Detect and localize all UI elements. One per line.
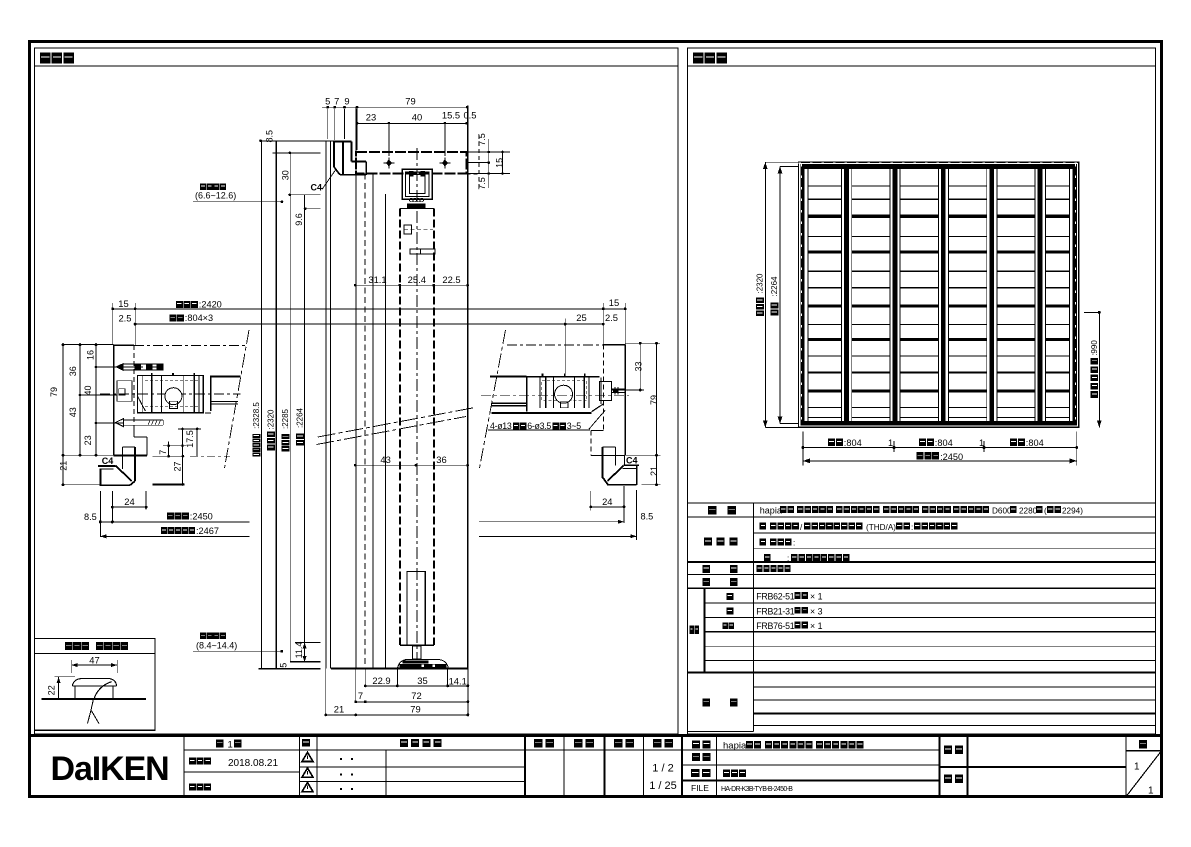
handle profile [72, 678, 116, 686]
door top details [404, 225, 412, 234]
wall double lines [325, 141, 327, 669]
svg-text:27: 27 [173, 461, 183, 471]
shelf lines (right) [491, 402, 526, 404]
svg-text::990: :990 [1090, 340, 1099, 356]
leader label 上下調節 (6.6~12.6) [200, 183, 206, 190]
svg-text:9.6: 9.6 [294, 213, 304, 226]
svg-text:33: 33 [634, 361, 644, 371]
svg-text::2264: :2264 [296, 407, 305, 428]
door bottom pivot housing [407, 571, 425, 645]
floor guide foot [397, 660, 448, 669]
svg-text:40: 40 [412, 111, 422, 122]
hanger housing [402, 169, 432, 199]
striker plate bits [117, 381, 132, 402]
floor line [258, 668, 320, 670]
latch bolt [600, 382, 612, 401]
svg-text:22.9: 22.9 [372, 675, 390, 686]
hanger rollers [410, 198, 414, 202]
lower dim row: 43 36 [355, 464, 467, 466]
screw marks on rail [388, 158, 390, 169]
svg-text:2294): 2294) [1062, 506, 1083, 515]
svg-text:C4: C4 [102, 456, 114, 466]
svg-text:8.5: 8.5 [84, 512, 97, 522]
spec finish rows content [760, 523, 767, 530]
svg-text:15: 15 [609, 297, 619, 308]
svg-text:7.5: 7.5 [477, 133, 487, 146]
svg-text:× 1: × 1 [810, 592, 823, 602]
svg-text:HA-DR-K3B-TYB-B-2450-B: HA-DR-K3B-TYB-B-2450-B [721, 786, 793, 793]
long vertical dim line 内法高:2285 [289, 153, 291, 662]
svg-text:72: 72 [411, 690, 421, 701]
svg-text::: : [911, 523, 913, 532]
svg-text:1: 1 [1134, 762, 1140, 773]
svg-text:22.5: 22.5 [442, 274, 460, 285]
svg-text:22: 22 [47, 685, 57, 695]
right jamb outline [624, 345, 626, 456]
svg-text:(THD/A): (THD/A) [866, 523, 896, 532]
svg-text:16: 16 [86, 350, 96, 360]
svg-text:7.5: 7.5 [477, 177, 487, 190]
svg-text:14.1: 14.1 [449, 676, 467, 687]
svg-text:× 1: × 1 [810, 621, 823, 631]
svg-text:17.5: 17.5 [185, 430, 195, 448]
page cell 頁 1/1 [1139, 740, 1147, 749]
spec row labels [708, 506, 717, 515]
spec 引手 content 手じゃくり [756, 565, 762, 572]
right jamb top centerline [507, 344, 603, 346]
svg-text:43: 43 [380, 454, 390, 465]
No. column header and revision-mark triangles [302, 739, 310, 747]
long vertical dim line 取付有効高:2328.5 [260, 141, 262, 669]
lower screw [115, 419, 123, 427]
svg-text:23: 23 [83, 435, 93, 445]
svg-text:24: 24 [124, 496, 134, 507]
svg-text:2280: 2280 [1019, 506, 1038, 515]
svg-text:21: 21 [59, 461, 69, 471]
svg-text:79: 79 [410, 704, 420, 715]
svg-text:40: 40 [83, 385, 93, 395]
svg-text:1: 1 [888, 438, 893, 448]
svg-text:79: 79 [405, 96, 415, 107]
leader label 上下調節 (8.4~14.4) [200, 633, 206, 640]
svg-text:36: 36 [436, 454, 446, 465]
svg-text:8.5: 8.5 [641, 511, 654, 521]
left panel (section view) border [35, 48, 679, 734]
svg-text:7: 7 [358, 690, 363, 701]
svg-text:2.5: 2.5 [118, 312, 131, 323]
svg-text:2.5: 2.5 [605, 312, 618, 323]
svg-text:79: 79 [649, 395, 659, 405]
left jamb outline [113, 345, 115, 456]
svg-text:1 / 25: 1 / 25 [649, 780, 677, 792]
right vertical line (0.5 offset / frame edge) [467, 105, 469, 668]
right panel (front view) border [688, 48, 1156, 734]
svg-text::2420: :2420 [199, 300, 222, 310]
svg-text:C4: C4 [626, 456, 638, 466]
front view height dim 枠外高:2320 (left outer) [764, 162, 766, 427]
svg-text::2328.5: :2328.5 [252, 402, 261, 429]
承認/確認/作成/縮尺 headers [534, 739, 543, 748]
svg-text:23: 23 [366, 111, 376, 122]
svg-text:× 3: × 3 [810, 606, 823, 616]
svg-text:8.5: 8.5 [264, 130, 274, 143]
svg-text:FRB76-51: FRB76-51 [756, 621, 794, 631]
svg-text:11.4: 11.4 [294, 642, 304, 659]
bottom width dims 24 / 8.5 / 2450 / 2467 (left) [100, 491, 102, 537]
right stop piece with C4 [601, 447, 603, 478]
svg-text:0.5: 0.5 [463, 110, 476, 121]
left stop piece with C4 chamfer [98, 465, 115, 467]
front view door height dim 扉高:2264 [779, 166, 781, 423]
dims 7 / 17.5 / 27 [168, 441, 170, 456]
frame border bands [800, 164, 1077, 169]
right top dims 7.5 / 15 / 7.5 [467, 151, 511, 153]
shelf lines to break (left) [211, 375, 241, 377]
right dim chains 33 / 79 / 21 [639, 343, 641, 390]
svg-text::804: :804 [844, 438, 862, 448]
handle detail box [35, 639, 155, 731]
rev col: 第1版 header [216, 740, 224, 748]
svg-text:1: 1 [228, 740, 233, 751]
svg-text:1 / 2: 1 / 2 [652, 763, 673, 775]
top rail (hanger rail) [356, 152, 467, 174]
hanger bolt [407, 204, 426, 209]
stitch dashes on frame [799, 162, 1079, 164]
inner frame vertical lines [355, 108, 357, 669]
spec table vertical rules [753, 503, 755, 732]
floor trim lines (left of door) [295, 641, 321, 643]
title block top border [30, 734, 1162, 737]
hinge pivot circle [165, 388, 182, 405]
front view right dim 手じゃくり高:990 [1084, 311, 1099, 313]
svg-text:15: 15 [495, 158, 505, 168]
right bottom dims 24 / 8.5 / 2450 2467 ends [590, 491, 592, 511]
left detail horizontal centerline [100, 393, 241, 395]
ceiling line [260, 140, 345, 142]
door stiles (5 dividers) [841, 169, 843, 421]
svg-text:C4: C4 [311, 182, 323, 192]
door break line (double diagonal) [317, 417, 467, 445]
svg-text:79: 79 [49, 387, 59, 397]
title block vertical dividers [183, 736, 185, 797]
svg-text::2450: :2450 [940, 452, 963, 462]
long vertical dim line 枠外高:2320 [275, 141, 277, 669]
svg-text:36: 36 [68, 366, 78, 376]
svg-text::2450: :2450 [190, 512, 213, 522]
改訂履歴 header [400, 739, 408, 747]
revision row dots [340, 758, 342, 760]
spec table horizontal rules [688, 502, 1156, 504]
svg-text:5: 5 [279, 663, 289, 668]
svg-text:(8.4~14.4): (8.4~14.4) [196, 641, 237, 651]
latch plate assembly [490, 376, 526, 378]
door panel edges (dashed) [399, 209, 401, 646]
svg-text::804×3: :804×3 [185, 313, 213, 323]
svg-text:DaIKEN: DaIKEN [51, 750, 169, 788]
break mark below floor [91, 699, 94, 710]
door centerline [416, 148, 418, 668]
改訂日 row [189, 784, 196, 791]
latch centerline [481, 394, 629, 396]
pivot hinge plate [137, 375, 203, 412]
svg-text:47: 47 [89, 655, 99, 666]
svg-text:15: 15 [118, 298, 128, 309]
svg-text:FRB21-31: FRB21-31 [756, 606, 794, 616]
svg-text:15.5: 15.5 [442, 110, 460, 121]
inner width dim 枠内幅:2420 [113, 308, 626, 310]
svg-text:25.4: 25.4 [408, 274, 426, 285]
upper screw (hinge fixing) [100, 366, 163, 368]
svg-text:hapia: hapia [723, 741, 747, 752]
front view title 正面図 [693, 53, 704, 64]
front view width dim line (枠幅:804 x3) [802, 432, 804, 466]
svg-text::804: :804 [1026, 438, 1044, 448]
drawing name 三面図 [723, 769, 730, 777]
svg-text:31.1: 31.1 [368, 274, 386, 285]
top wall bracket [333, 142, 335, 168]
top dim row: 5 7 9 / 79 [322, 106, 467, 108]
svg-text:2018.08.21: 2018.08.21 [228, 758, 278, 769]
mid dim row: 31.1 25.4 22.5 [355, 284, 467, 286]
right break line [480, 330, 506, 468]
floor line in box [42, 698, 146, 700]
svg-text:9: 9 [344, 96, 349, 107]
svg-text:21: 21 [334, 704, 344, 715]
svg-text::2285: :2285 [281, 408, 290, 429]
svg-text::2320: :2320 [756, 273, 765, 294]
svg-text:FILE: FILE [691, 783, 709, 793]
svg-text:24: 24 [602, 496, 612, 507]
svg-text:43: 43 [68, 407, 78, 417]
door width dim 扉幅:804×3 [135, 323, 603, 325]
svg-text::: : [787, 554, 789, 563]
svg-text:7: 7 [334, 96, 339, 107]
svg-text:1: 1 [1148, 786, 1154, 797]
box title 戸先側 納まり図 [65, 642, 73, 650]
svg-text:7: 7 [158, 450, 168, 455]
ceiling sub line [273, 152, 321, 154]
svg-text:25: 25 [576, 312, 586, 323]
bottom dim rows [364, 669, 366, 687]
svg-text:hapia: hapia [760, 506, 782, 516]
long vertical dim line 扉高:2264 [304, 195, 306, 662]
svg-text:5: 5 [325, 96, 330, 107]
svg-text:30: 30 [280, 170, 290, 180]
件名 / 部屋 labels [944, 746, 952, 755]
svg-text:D600: D600 [992, 506, 1012, 515]
svg-text:35: 35 [417, 675, 427, 686]
svg-text::2467: :2467 [196, 526, 219, 536]
left jamb top centerline (dash-dot) [134, 345, 245, 347]
svg-text:(: ( [1044, 506, 1047, 515]
svg-text:1: 1 [979, 438, 984, 448]
front view door frame outer rect [799, 162, 1079, 427]
制定日 row [189, 758, 196, 765]
svg-text::: : [793, 539, 795, 548]
front view total width dim 枠外幅:2450 [803, 460, 1077, 462]
top dim row2: 23 40 15.5 0.5 [357, 122, 467, 124]
svg-text:(6.6~12.6): (6.6~12.6) [195, 191, 236, 201]
svg-text:21: 21 [649, 466, 659, 476]
frame inner edge lines [807, 169, 809, 421]
left break line [225, 330, 250, 468]
svg-text::2264: :2264 [770, 276, 779, 297]
svg-text::804: :804 [935, 438, 953, 448]
left dim chains 79 / 36 43 / 16 40 23 [62, 345, 64, 485]
dim 47 [72, 664, 118, 666]
svg-text::2320: :2320 [266, 409, 275, 430]
name column headers 名称/見積/図名/FILE [692, 740, 700, 748]
louver slat lines [808, 185, 842, 187]
section view title 断面図 [40, 53, 51, 64]
svg-text:FRB62-51: FRB62-51 [756, 592, 794, 602]
